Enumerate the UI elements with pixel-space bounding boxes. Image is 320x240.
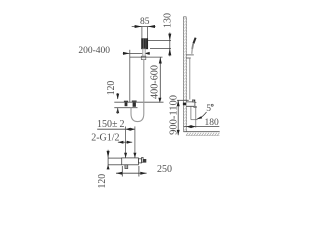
dimension 150±2 line and arrows bbox=[97, 128, 135, 131]
dimension 200-400 line and arrows bbox=[123, 52, 150, 55]
svg-text:200-400: 200-400 bbox=[78, 46, 110, 56]
inlet pipe leader lines with arrows bbox=[124, 126, 136, 157]
svg-text:120: 120 bbox=[106, 81, 117, 96]
hand shower holder (dark slider) bbox=[142, 39, 148, 49]
svg-text:180: 180 bbox=[204, 118, 219, 128]
dimension 400-600 text (rotated) bbox=[150, 65, 161, 99]
valve mounting line bbox=[114, 102, 163, 108]
dimension 120 upper arrows bbox=[116, 93, 119, 114]
dimension 120 upper text (rotated) bbox=[106, 81, 117, 96]
dimension 2-G1/2 text bbox=[91, 133, 119, 144]
dimension 85 line and arrows bbox=[132, 25, 156, 28]
dimension 200-400 text bbox=[78, 46, 110, 56]
shower rail tube bbox=[141, 49, 146, 60]
angle reference lines below body bbox=[191, 107, 198, 128]
dimension 150±2 text bbox=[97, 119, 125, 130]
mixer body front view bbox=[122, 158, 147, 169]
floor hatch bbox=[186, 133, 219, 136]
holder bracket (side view) bbox=[186, 55, 194, 58]
svg-text:5: 5 bbox=[206, 104, 211, 114]
2-G1/2 double arrow bbox=[118, 141, 132, 144]
dimension 250 line and arrows bbox=[116, 166, 147, 177]
shower head extension lines bbox=[142, 27, 148, 39]
right inlet fitting bbox=[132, 101, 137, 107]
hand shower head (side view) bbox=[192, 38, 196, 54]
shower hose bbox=[131, 60, 144, 122]
svg-text:250: 250 bbox=[157, 164, 172, 175]
svg-text:2-G1/2: 2-G1/2 bbox=[91, 133, 119, 144]
svg-text:900-1100: 900-1100 bbox=[169, 95, 180, 135]
dimension 180 line and double arrow bbox=[184, 125, 220, 128]
wall inlet extension line bbox=[129, 50, 131, 102]
dimension 130 text (rotated) bbox=[163, 13, 174, 28]
svg-text:120: 120 bbox=[97, 174, 108, 189]
mixer body side view bbox=[183, 100, 197, 108]
dimension 250 text bbox=[157, 164, 172, 175]
hose hanging (side view) bbox=[189, 58, 191, 99]
dimension 180 text bbox=[204, 118, 219, 128]
dimension 900-1100 line and arrows bbox=[177, 100, 189, 135]
dimension 130 lines and arrows bbox=[148, 33, 171, 57]
svg-text:85: 85 bbox=[140, 17, 150, 27]
5 degree arc leader with arrow bbox=[196, 112, 206, 119]
dimension 120 body height extension lines bbox=[107, 150, 122, 170]
wall section (side view) bbox=[183, 17, 186, 132]
svg-text:130: 130 bbox=[163, 13, 174, 28]
5 degree text bbox=[206, 104, 213, 114]
dimension 85 text bbox=[140, 17, 150, 27]
dimension 120 lower text (rotated) bbox=[97, 174, 108, 189]
dimension 400-600 top line bbox=[130, 57, 163, 103]
dimension 900-1100 text (rotated) bbox=[169, 95, 180, 135]
floor line bbox=[184, 131, 220, 133]
left inlet fitting bbox=[124, 101, 128, 107]
svg-text:400-600: 400-600 bbox=[150, 65, 161, 99]
svg-text:150± 2: 150± 2 bbox=[97, 119, 125, 130]
